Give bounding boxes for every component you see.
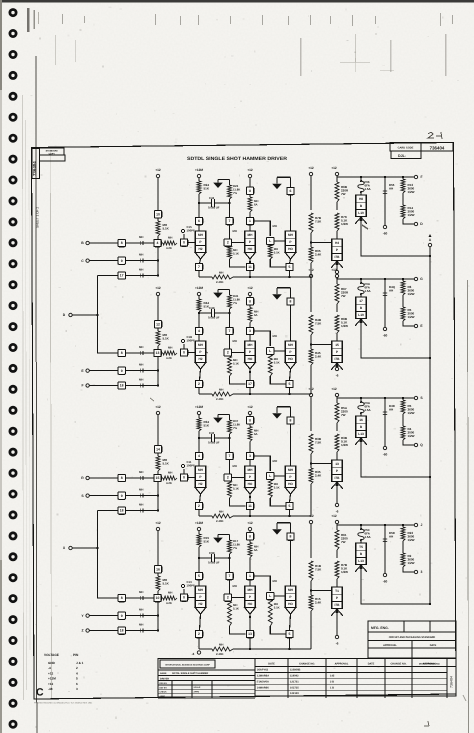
terminal -6	[336, 482, 338, 504]
svg-text:14: 14	[156, 447, 160, 451]
resistor R5 3600	[402, 398, 404, 400]
resistor 4.2K (channel 3 base)	[161, 477, 163, 479]
svg-text:+12: +12	[247, 168, 253, 172]
svg-text:MH: MH	[168, 236, 172, 240]
svg-text:+12: +12	[247, 286, 253, 290]
resistor 5.1K (input pull, channel 4)	[157, 573, 159, 576]
svg-text:12: 12	[156, 322, 160, 326]
resistor R3B 5.1K	[335, 434, 339, 452]
svg-text:4.2K: 4.2K	[166, 601, 172, 605]
svg-text:SDTDL SINGLE SHOT HAMMER: SDTDL SINGLE SHOT HAMMER	[172, 672, 208, 675]
svg-text:1.5A: 1.5A	[365, 535, 372, 539]
svg-text:+12: +12	[308, 387, 314, 391]
pin box 8	[290, 288, 292, 298]
svg-text:11: 11	[248, 504, 252, 508]
node box to T-B input	[224, 474, 231, 481]
svg-text:HO: HO	[248, 357, 253, 361]
output pin box 11	[249, 494, 251, 502]
svg-text:2: 2	[198, 382, 200, 386]
svg-text:2: 2	[227, 476, 229, 480]
svg-text:Q: Q	[420, 443, 423, 447]
capacitor C13 100PF	[183, 589, 185, 594]
svg-text:CHANGE NO.: CHANGE NO.	[299, 662, 315, 665]
ground (third stage top)	[276, 526, 278, 529]
svg-text:16: 16	[359, 418, 363, 422]
svg-text:9: 9	[121, 369, 123, 373]
svg-text:5.1K: 5.1K	[274, 486, 280, 490]
terminal -60	[383, 573, 386, 576]
transistor block T2B (MH P HO)	[249, 335, 251, 341]
svg-text:121721: 121721	[290, 680, 299, 683]
svg-text:2.43K: 2.43K	[216, 519, 223, 523]
svg-text:MH: MH	[139, 362, 143, 366]
svg-text:MH: MH	[139, 377, 143, 381]
pin box 3	[246, 327, 253, 334]
node to driver base	[310, 343, 312, 345]
svg-text:4: 4	[198, 329, 200, 333]
svg-text:-6: -6	[192, 652, 195, 656]
resistor R5A 220R 7W	[335, 403, 339, 423]
svg-text:1.5A: 1.5A	[365, 408, 372, 412]
svg-text:5.1K: 5.1K	[163, 227, 170, 231]
svg-text:26APY63: 26APY63	[257, 669, 269, 672]
ground	[229, 534, 231, 540]
svg-text:INTERNATIONAL BUSINESS MACHINE: INTERNATIONAL BUSINESS MACHINES CORP	[165, 664, 210, 667]
svg-text:119092: 119092	[290, 675, 299, 678]
svg-text:0.068 UF: 0.068 UF	[208, 316, 220, 320]
bias rail wire	[199, 648, 212, 650]
svg-text:+12: +12	[308, 166, 314, 170]
svg-text:1/2W: 1/2W	[408, 538, 415, 542]
svg-text:5.1K: 5.1K	[274, 361, 280, 365]
pin box 12	[154, 321, 161, 328]
scan line right edge	[468, 280, 469, 733]
resistor R44 51K	[197, 299, 201, 312]
resistor R6B 220R 7W	[335, 182, 339, 202]
bias rail wire	[199, 515, 212, 517]
svg-text:L10: L10	[358, 211, 364, 215]
svg-text:MH: MH	[139, 502, 143, 506]
wire bracket to channel 4	[98, 511, 118, 599]
capacitor C46 0.068 UF	[199, 202, 212, 204]
svg-text:4: 4	[157, 241, 159, 245]
node to driver base	[310, 241, 312, 243]
node box L	[267, 472, 274, 479]
resistor 2.43K (bias)	[212, 275, 233, 279]
handwritten mark z-1	[428, 132, 442, 139]
svg-text:MH: MH	[168, 471, 172, 475]
svg-text:MH: MH	[168, 346, 172, 350]
wire to A-node	[361, 438, 430, 477]
svg-text:-4: -4	[48, 666, 51, 670]
svg-text:1/2W: 1/2W	[341, 570, 348, 574]
fuse F53 1.5A	[358, 529, 364, 540]
svg-text:9: 9	[121, 259, 123, 263]
svg-text:736404: 736404	[450, 676, 454, 688]
resistor 5.1K (input pull, channel 1)	[157, 218, 159, 221]
svg-text:5: 5	[289, 632, 291, 636]
output pin box 13	[249, 614, 251, 630]
resistor R15	[309, 595, 313, 611]
svg-text:1/2W: 1/2W	[408, 315, 415, 319]
svg-text:5.1K: 5.1K	[233, 252, 239, 256]
svg-text:1/2W: 1/2W	[408, 213, 415, 217]
svg-text:8: 8	[121, 476, 123, 480]
pin box 6	[195, 217, 202, 224]
svg-text:7: 7	[229, 329, 231, 333]
svg-text:H4: H4	[335, 241, 339, 245]
ground (third stage top)	[276, 291, 278, 294]
svg-text:PRINTED RECORD CO. BROOKLYN: PRINTED RECORD CO. BROOKLYN 17 N.Y. WORL…	[34, 702, 93, 705]
resistor 4.2K (channel 1 base)	[161, 242, 163, 244]
svg-text:2.4K: 2.4K	[315, 601, 322, 605]
output pin box 2	[200, 614, 201, 630]
svg-text:-48: -48	[48, 687, 53, 691]
wire junction	[157, 247, 159, 261]
svg-text:APPD: APPD	[160, 695, 166, 698]
output rail wire	[337, 524, 415, 526]
svg-text:-60: -60	[383, 232, 388, 236]
svg-text:8: 8	[121, 241, 123, 245]
svg-text:MFG. ENG.: MFG. ENG.	[371, 626, 389, 630]
resistor R3B 7.5K	[309, 434, 313, 454]
svg-text:2: 2	[198, 632, 200, 636]
svg-text:L: L	[269, 474, 271, 478]
pin box U	[246, 298, 253, 305]
svg-text:MH: MH	[273, 334, 277, 338]
svg-text:+12: +12	[247, 405, 253, 409]
svg-text:7.5K: 7.5K	[315, 220, 322, 224]
wire junction	[157, 496, 159, 511]
svg-text:10: 10	[156, 596, 160, 600]
svg-text:1: 1	[249, 219, 251, 223]
pin box (R26 leg)	[229, 438, 231, 452]
IBM title block	[158, 659, 255, 698]
svg-text:15: 15	[335, 343, 339, 347]
svg-text:-60: -60	[383, 580, 388, 584]
output transistor block Q3	[356, 416, 367, 438]
svg-text:L10: L10	[358, 313, 364, 317]
svg-text:MH: MH	[219, 271, 223, 275]
node box to T-B input	[224, 349, 231, 356]
scan top edge bar	[0, 0, 474, 3]
wire to A-node	[361, 217, 430, 256]
svg-text:MH: MH	[233, 464, 237, 468]
svg-text:+12M: +12M	[195, 521, 203, 525]
wire to bias rail	[310, 263, 312, 277]
resistor R35	[309, 468, 313, 484]
svg-text:-6: -6	[336, 642, 339, 646]
capacitor C11 100PF	[183, 469, 185, 474]
output terminal 3	[403, 567, 415, 572]
svg-text:7: 7	[198, 265, 200, 269]
resistor R1B 7.5K	[309, 561, 313, 581]
svg-text:10: 10	[156, 212, 160, 216]
svg-text:CHANGE NO.: CHANGE NO.	[391, 662, 407, 665]
svg-text:C46: C46	[209, 196, 215, 200]
resistor 5.1K (emitter)	[228, 601, 232, 626]
svg-text:DATE: DATE	[430, 644, 437, 647]
ground (third stage top)	[276, 181, 278, 184]
output pin box 2	[200, 494, 201, 502]
svg-text:0.068 UF: 0.068 UF	[208, 206, 220, 210]
svg-text:+12: +12	[247, 521, 253, 525]
svg-text:DEVELOPMENT NO.: DEVELOPMENT NO.	[419, 662, 441, 665]
wire to bias rail	[310, 484, 312, 516]
svg-text:HO: HO	[288, 482, 293, 486]
svg-text:L13: L13	[358, 559, 364, 563]
pin box (R26 leg)	[229, 558, 231, 572]
faint scan blemishes	[340, 62, 370, 63]
svg-text:+12M: +12M	[195, 405, 203, 409]
node	[198, 312, 200, 314]
resistor R5 2000	[401, 307, 405, 321]
svg-text:7.5K: 7.5K	[315, 568, 322, 572]
node box 13 (junction)	[154, 349, 161, 356]
wire box1 to L-node	[254, 221, 271, 236]
svg-text:MH: MH	[139, 622, 143, 626]
bias rail wire	[199, 276, 212, 278]
resistor R45	[309, 349, 313, 365]
left margin streak lines	[23, 95, 24, 700]
pin box (R26 leg)	[229, 203, 231, 217]
resistor 5.1K (emitter)	[228, 356, 232, 376]
svg-text:5: 5	[289, 382, 291, 386]
svg-text:736404: 736404	[430, 146, 445, 151]
svg-text:HO: HO	[248, 482, 253, 486]
svg-text:7W: 7W	[341, 294, 346, 298]
resistor R2 2000	[401, 553, 405, 567]
svg-text:I7B: I7B	[335, 603, 341, 607]
resistor R05	[309, 247, 313, 263]
svg-text:13: 13	[248, 632, 252, 636]
svg-text:DET BY: DET BY	[160, 686, 168, 689]
wire junction	[157, 482, 159, 496]
svg-text:HO: HO	[248, 602, 253, 606]
resistor 2.43K (bias)	[212, 514, 233, 518]
transistor block T1A (MH P H2)	[195, 231, 206, 253]
input pin box (line 1)	[118, 474, 125, 481]
svg-text:T5: T5	[359, 545, 363, 549]
card code box	[390, 143, 453, 152]
transistor block T4C (MH P HO)	[285, 586, 296, 608]
svg-text:110806B: 110806B	[290, 669, 301, 672]
svg-text:I7B: I7B	[335, 255, 341, 259]
wire bracket to channel 2	[98, 276, 118, 354]
resistor 5.1K (L leg)	[268, 600, 272, 626]
svg-text:4: 4	[198, 454, 200, 458]
diode D4Q	[384, 279, 386, 328]
wire to bias rail	[198, 638, 200, 649]
input pin box (line 1)	[118, 349, 125, 356]
svg-text:13: 13	[156, 351, 160, 355]
wire junction	[157, 602, 159, 616]
svg-text:7.5K: 7.5K	[315, 441, 322, 445]
svg-text:MH: MH	[198, 588, 204, 592]
svg-text:5: 5	[198, 574, 200, 578]
resistor R13 3600	[402, 177, 404, 179]
pin box 4	[195, 452, 202, 459]
resistor R24 51K	[197, 181, 201, 194]
svg-text:I7B: I7B	[335, 476, 341, 480]
svg-text:3: 3	[421, 570, 423, 574]
svg-text:8: 8	[290, 419, 292, 423]
svg-text:8: 8	[121, 351, 123, 355]
pin box 14	[154, 446, 161, 453]
pin box 3	[246, 452, 253, 459]
resistor 5.1K (L leg)	[268, 355, 272, 376]
svg-text:9: 9	[121, 494, 123, 498]
svg-text:-60: -60	[383, 453, 388, 457]
terminal -6 (bias tap)	[197, 651, 200, 654]
ground (third stage top)	[276, 410, 278, 413]
resistor R34 51K	[197, 418, 201, 431]
resistor 2.43K (bias)	[212, 647, 233, 651]
svg-text:103735: 103735	[290, 686, 299, 689]
input pin box (line 2)	[118, 492, 125, 499]
output terminal G	[414, 277, 417, 280]
svg-text:5.1K: 5.1K	[274, 251, 280, 255]
handwritten pencil marks bottom right	[424, 721, 429, 726]
svg-text:H2: H2	[198, 357, 202, 361]
output pin box 11	[249, 259, 251, 263]
output pin box 5	[290, 614, 291, 630]
svg-text:7.5K: 7.5K	[315, 322, 322, 326]
svg-text:2: 2	[227, 241, 229, 245]
transistor block T2C (MH P HO)	[285, 341, 296, 363]
resistor R61 220R 7W	[335, 530, 339, 550]
svg-text:MH: MH	[219, 643, 223, 647]
svg-text:0.068 UF: 0.068 UF	[208, 441, 220, 445]
transistor block T3D	[332, 460, 343, 482]
output pin box 7	[200, 259, 201, 263]
svg-text:17: 17	[359, 299, 363, 303]
svg-text:MH: MH	[139, 487, 143, 491]
ground	[229, 414, 231, 420]
input line 3	[98, 510, 118, 512]
svg-text:122129: 122129	[290, 692, 299, 695]
pin box U	[246, 417, 253, 424]
standard copy box	[40, 148, 65, 155]
diode D5D	[384, 525, 386, 574]
svg-text:APPD: APPD	[194, 691, 200, 694]
node	[198, 202, 200, 204]
svg-text:1/2W: 1/2W	[408, 190, 415, 194]
svg-text:DES BY: DES BY	[160, 682, 168, 685]
resistor R37 11.8K	[228, 437, 230, 439]
svg-text:1/2W: 1/2W	[341, 222, 348, 226]
svg-text:+12: +12	[331, 514, 337, 518]
svg-text:+12: +12	[331, 268, 337, 272]
svg-text:100PF: 100PF	[187, 584, 196, 588]
svg-text:4.2K: 4.2K	[166, 246, 172, 250]
svg-text:CARD CODE: CARD CODE	[398, 146, 414, 149]
svg-text:7%: 7%	[233, 426, 238, 430]
svg-text:+12M: +12M	[48, 677, 56, 681]
wire box1 to L-node	[254, 331, 271, 346]
node box	[180, 239, 187, 246]
paper crease line	[50, 150, 51, 698]
svg-text:GND: GND	[48, 661, 56, 665]
resistor 5.1K (input pull, channel 2)	[157, 328, 159, 331]
svg-text:MH: MH	[248, 588, 254, 592]
output pin box 17	[249, 369, 251, 380]
svg-text:4.2K: 4.2K	[166, 481, 172, 485]
svg-text:2.43K: 2.43K	[216, 652, 223, 656]
node box	[180, 474, 187, 481]
svg-text:DJL-: DJL-	[398, 154, 407, 158]
svg-text:3: 3	[76, 687, 78, 691]
svg-text:7%: 7%	[233, 191, 238, 195]
output terminal F	[414, 175, 417, 178]
svg-text:1/2W: 1/2W	[408, 411, 415, 415]
svg-text:MH: MH	[139, 345, 143, 349]
pin box 5	[195, 572, 202, 579]
terminal -6	[336, 261, 338, 271]
node to driver base	[310, 589, 312, 591]
input pin box (line 3)	[118, 507, 125, 514]
svg-text:17: 17	[120, 274, 124, 278]
svg-text:2.4K: 2.4K	[315, 253, 322, 257]
node	[198, 437, 200, 439]
output terminal Q	[403, 440, 415, 445]
svg-text:8: 8	[290, 300, 292, 304]
transistor block T1D	[332, 239, 343, 261]
svg-text:F: F	[81, 384, 83, 388]
svg-text:MH: MH	[288, 588, 294, 592]
fuse F0A 1.5A	[358, 402, 364, 413]
resistor 5.1K (emitter)	[228, 246, 232, 259]
svg-text:MH: MH	[248, 468, 254, 472]
svg-text:7: 7	[229, 574, 231, 578]
svg-text:MH: MH	[233, 339, 237, 343]
svg-text:APPROVAL: APPROVAL	[383, 644, 397, 647]
svg-text:MH: MH	[273, 579, 277, 583]
transistor block T2D	[332, 341, 343, 363]
svg-text:MH: MH	[139, 607, 143, 611]
ground	[229, 289, 231, 295]
capacitor C3B 0.068 UF	[199, 557, 212, 559]
svg-text:4: 4	[76, 671, 78, 675]
terminal -60	[383, 327, 386, 330]
svg-text:DRIVER: DRIVER	[160, 677, 169, 680]
svg-text:1/2W: 1/2W	[408, 434, 415, 438]
svg-text:MH: MH	[139, 235, 143, 239]
svg-text:100PF: 100PF	[187, 339, 196, 343]
svg-text:100PF: 100PF	[187, 229, 196, 233]
pin box U	[246, 187, 253, 194]
svg-text:MH: MH	[273, 224, 277, 228]
pin box 6	[290, 177, 292, 187]
resistor 5.1K (L leg)	[268, 480, 272, 498]
svg-text:51K: 51K	[204, 187, 210, 191]
output rail wire	[337, 278, 415, 280]
svg-text:MH: MH	[139, 470, 143, 474]
svg-text:+12: +12	[155, 521, 161, 525]
svg-text:6A: 6A	[254, 432, 258, 436]
svg-text:6: 6	[290, 189, 292, 193]
svg-text:2.4K: 2.4K	[315, 474, 322, 478]
svg-text:71NOV6A: 71NOV6A	[257, 680, 269, 683]
svg-text:7W: 7W	[341, 413, 346, 417]
capacitor C1B 100PF	[183, 344, 185, 349]
svg-text:MH: MH	[139, 267, 143, 271]
node box	[180, 349, 187, 356]
DJL box	[391, 151, 421, 158]
svg-text:13: 13	[335, 462, 339, 466]
svg-text:2.43K: 2.43K	[216, 397, 223, 401]
svg-text:+12: +12	[155, 168, 161, 172]
